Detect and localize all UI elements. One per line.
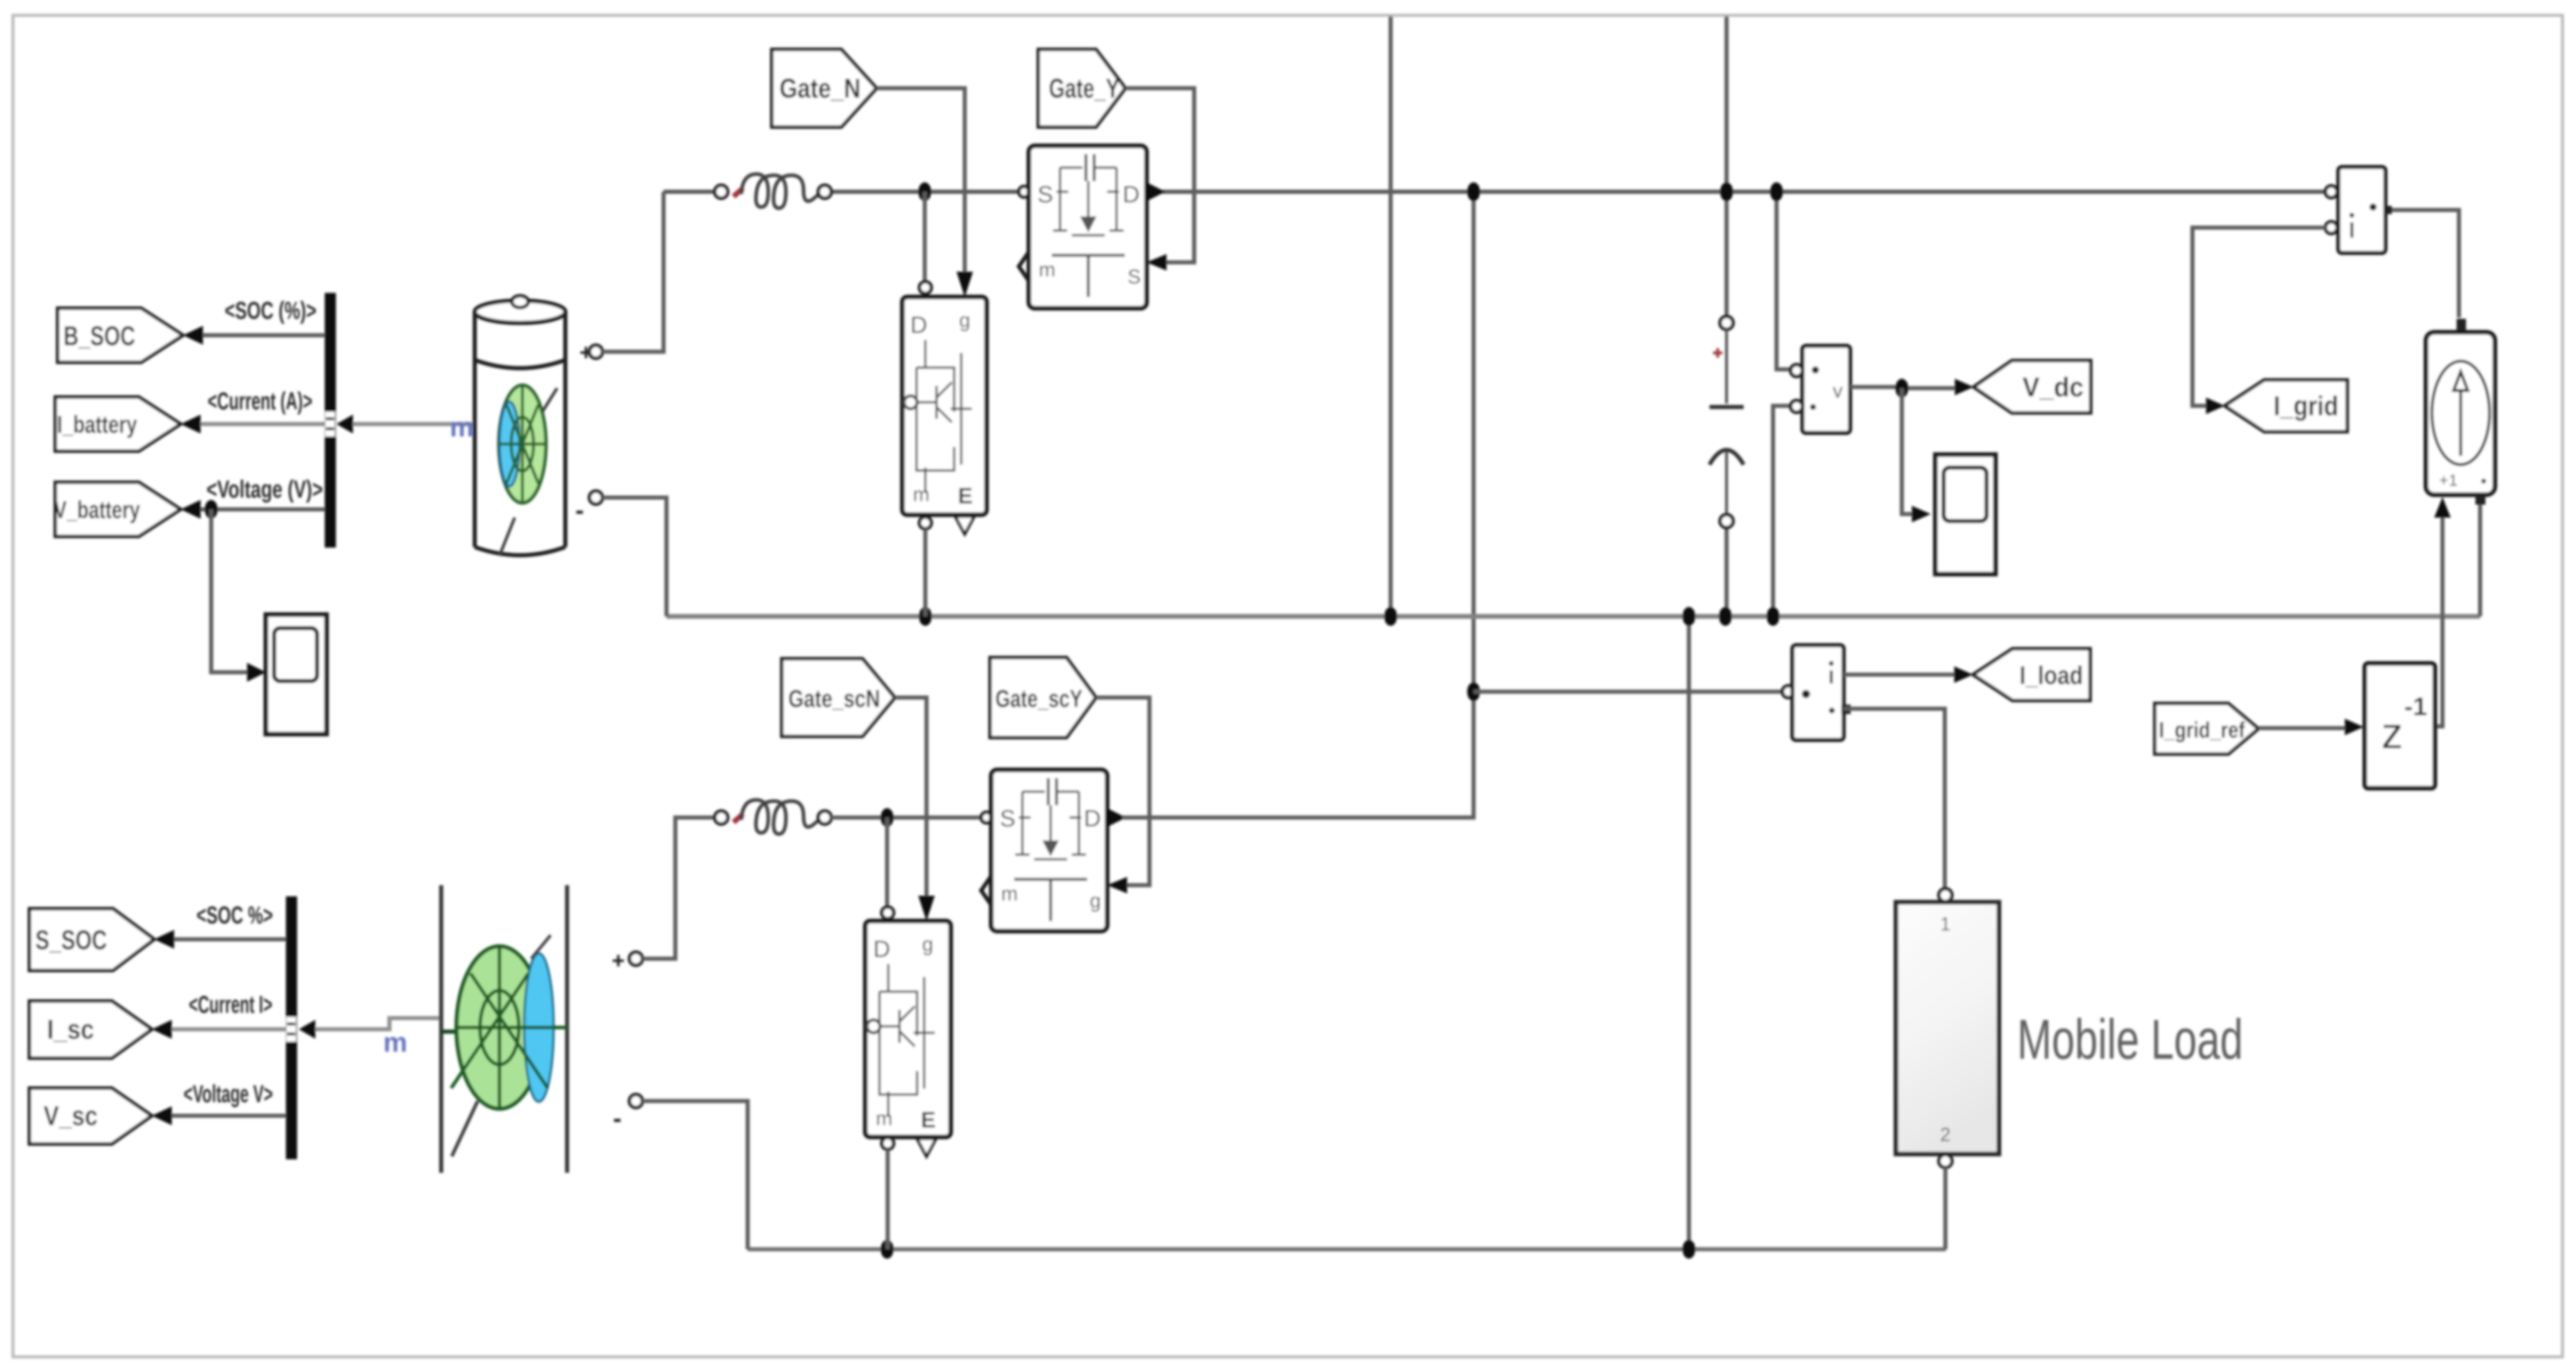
- MOSFET2 (SC bypass switch): [981, 770, 1126, 931]
- svg-text:I_load: I_load: [2020, 661, 2083, 690]
- svg-text:S: S: [1038, 182, 1054, 208]
- svg-text:Gate_scY: Gate_scY: [995, 685, 1082, 712]
- wire: Mobile Load bottom to return line: [1944, 1167, 1948, 1249]
- wire: I_load measurement to goto tag: [1844, 673, 1954, 677]
- svg-text:E: E: [958, 484, 972, 509]
- wire: top bus junction down to IGBT1 collector: [923, 192, 927, 281]
- wire: MOSFET2 output to DC link vertical: [1122, 816, 1474, 820]
- svg-text:S: S: [1000, 806, 1016, 832]
- svg-text:Gate_Y: Gate_Y: [1049, 73, 1119, 104]
- svg-text:-: -: [575, 496, 584, 525]
- wire: Gate_Y to MOSFET1 gate: [1125, 88, 1194, 262]
- svg-text:m: m: [1001, 883, 1018, 905]
- IGBT1 (battery converter switch): [902, 282, 987, 534]
- from tag Gate_scN: [782, 659, 895, 736]
- svg-text:-: -: [613, 1104, 622, 1133]
- svg-text:I_grid: I_grid: [2274, 391, 2338, 421]
- svg-text:<Current (A)>: <Current (A)>: [208, 387, 312, 415]
- svg-text:1: 1: [1940, 913, 1951, 935]
- wire: supercap - to return line: [642, 1101, 748, 1249]
- wire: Gate_scY to MOSFET2 gate: [1096, 698, 1149, 885]
- goto tag V_sc: [29, 1088, 152, 1144]
- wire: z-1 output up to current source control: [2435, 518, 2442, 726]
- voltage measurement block V_dc: [1791, 346, 1850, 433]
- wire: battery + up to inductor: [602, 192, 664, 352]
- goto tag I_sc: [29, 1001, 152, 1058]
- inductor L_sc: [715, 800, 831, 834]
- svg-text:E: E: [921, 1108, 935, 1133]
- goto tag I_battery: [55, 397, 181, 451]
- svg-text:m: m: [913, 483, 929, 506]
- node: junction dots on bottom bus: [919, 607, 1779, 626]
- wire: SC bus selector to V_sc: [172, 1114, 286, 1118]
- current measurement I_load: [1782, 645, 1851, 740]
- current source - port: [2475, 495, 2485, 505]
- svg-text:<Current I>: <Current I>: [189, 990, 272, 1018]
- svg-text:D: D: [911, 312, 928, 338]
- wire: SC bus selector to I_sc: [172, 1028, 286, 1032]
- wire: DC link junction to I_load measurement: [1474, 690, 1787, 694]
- svg-text:V_dc: V_dc: [2022, 372, 2084, 402]
- node: junction dot DC link to load measurement: [1467, 682, 1480, 701]
- unit delay z-1: [2365, 663, 2435, 788]
- from tag Gate_Y: [1038, 49, 1125, 127]
- goto tag V_battery: [54, 482, 181, 536]
- wire: SC bus selector to S_SOC: [174, 938, 286, 942]
- wire: vertical x=3014 voltage measurement - to bottom bus: [1773, 406, 1799, 616]
- wire: Gate_scN to IGBT2 gate: [895, 698, 927, 896]
- battery block (cylinder with logo): [475, 296, 565, 556]
- svg-text:D: D: [874, 936, 891, 962]
- node: junction dots on top bus: [918, 182, 1783, 201]
- wire: supercap m to SC bus selector (grey, jog): [315, 1018, 441, 1029]
- wire: bottom bus corner up to current source - terminal: [2478, 505, 2482, 616]
- svg-text:S_SOC: S_SOC: [35, 925, 107, 955]
- wire: I_grid_ref to z-1: [2258, 726, 2345, 730]
- bus selector (supercap): [286, 896, 315, 1159]
- svg-text:D: D: [1123, 182, 1140, 208]
- svg-text:z: z: [2381, 709, 2403, 758]
- wire: vertical from top frame x=2364 down to bottom bus: [1389, 16, 1393, 616]
- wire: battery - down to bottom bus: [602, 498, 667, 616]
- node: junction dots on load return line: [881, 1240, 894, 1259]
- wire: DC link vertical x=2505 bus to SC converter output: [1117, 192, 1474, 818]
- svg-text:<Voltage V>: <Voltage V>: [184, 1080, 273, 1108]
- wire: bus selector to V_battery: [201, 508, 325, 512]
- current measurement I_grid: [2325, 167, 2392, 253]
- bus selector (battery): [325, 293, 353, 548]
- battery logo: [499, 385, 546, 503]
- svg-text:m: m: [1039, 259, 1055, 281]
- svg-text:g: g: [922, 933, 934, 956]
- wire: vertical from top frame x=2935 to capacitor: [1725, 16, 1729, 316]
- from tag I_grid_ref: [2155, 703, 2258, 754]
- svg-text:+1: +1: [2439, 471, 2458, 489]
- goto tag I_load: [1973, 649, 2090, 700]
- wire: battery m to bus selector (grey): [353, 422, 475, 426]
- svg-text:<Voltage (V)>: <Voltage (V)>: [206, 475, 323, 503]
- wire: junction down to IGBT2 collector: [885, 818, 889, 907]
- svg-text:<SOC %>: <SOC %>: [196, 901, 273, 929]
- wire: I_grid measurement output to current source: [2392, 210, 2459, 318]
- goto tag S_SOC: [29, 909, 154, 970]
- wire: capacitor bottom to bottom bus: [1725, 528, 1729, 616]
- wire: vertical x=2871 bottom bus to load return line: [1687, 616, 1691, 1249]
- wire: SC inductor to SC MOSFET: [831, 816, 981, 820]
- svg-text:Gate_scN: Gate_scN: [788, 685, 880, 712]
- svg-text:S: S: [1128, 266, 1141, 288]
- wire: Gate_N to IGBT1 gate: [877, 88, 965, 272]
- node: junction on V_battery wire to scope: [205, 500, 218, 519]
- scope2 (V_dc scope): [1935, 455, 1995, 574]
- wire: junction down to scope2: [1902, 388, 1912, 514]
- svg-text:2: 2: [1940, 1124, 1951, 1145]
- wire: V_battery junction down to scope1: [211, 509, 247, 672]
- wire: vertical x=3020 bus to voltage measurement +: [1777, 192, 1799, 369]
- svg-text:v: v: [1833, 380, 1843, 402]
- svg-text:I_battery: I_battery: [57, 411, 137, 438]
- inductor L_bat: [715, 174, 831, 208]
- svg-text:V_battery: V_battery: [54, 496, 140, 523]
- from tag Gate_scY: [990, 658, 1096, 738]
- svg-text:I_sc: I_sc: [47, 1014, 94, 1045]
- svg-text:m: m: [450, 412, 474, 442]
- supercapacitor block: [441, 885, 568, 1173]
- svg-text:I_grid_ref: I_grid_ref: [2159, 718, 2245, 743]
- svg-text:m: m: [876, 1108, 892, 1130]
- svg-text:V_sc: V_sc: [44, 1100, 98, 1131]
- wire: top DC bus y=326: [664, 190, 2331, 194]
- MOSFET1 (battery bypass switch): [1019, 146, 1165, 308]
- controlled current source: [2426, 319, 2495, 495]
- wire: bus selector to I_battery: [201, 422, 325, 426]
- svg-text:<SOC (%)>: <SOC (%)>: [225, 296, 316, 324]
- capacitor C_dc: [1709, 316, 1744, 528]
- IGBT2 (SC converter switch): [865, 907, 951, 1156]
- Mobile Load block: [1896, 889, 1999, 1167]
- wire: supercap + up to SC inductor: [642, 818, 715, 959]
- svg-text:g: g: [959, 309, 971, 332]
- wire: load return line y=2124: [748, 1247, 1946, 1252]
- wire: I_load measurement down to Mobile Load: [1844, 709, 1945, 889]
- svg-text:Mobile Load: Mobile Load: [2017, 1008, 2243, 1071]
- wire: bus selector to B_SOC: [203, 333, 325, 338]
- goto tag B_SOC: [58, 308, 183, 362]
- goto tag I_grid: [2225, 380, 2347, 432]
- scope1 (battery voltage): [266, 615, 326, 734]
- svg-text:+: +: [612, 949, 625, 973]
- svg-text:Gate_N: Gate_N: [779, 73, 861, 104]
- svg-text:g: g: [1090, 890, 1101, 912]
- svg-text:D: D: [1084, 806, 1101, 832]
- wire: bottom DC bus y=1048: [667, 614, 2480, 619]
- wire: I_grid i output to goto tag: [2192, 228, 2325, 406]
- svg-text:m: m: [384, 1027, 408, 1058]
- wire: V measurement output to junction: [1850, 387, 1955, 388]
- wire: IGBT1 emitter down to bottom bus: [924, 529, 928, 616]
- from tag Gate_N: [772, 49, 877, 127]
- svg-text:B_SOC: B_SOC: [64, 321, 135, 351]
- goto tag V_dc: [1974, 361, 2091, 413]
- svg-text:-1: -1: [2404, 692, 2427, 721]
- node: junction SC inductor output: [881, 808, 894, 827]
- wire: IGBT2 emitter down to return line: [886, 1149, 890, 1249]
